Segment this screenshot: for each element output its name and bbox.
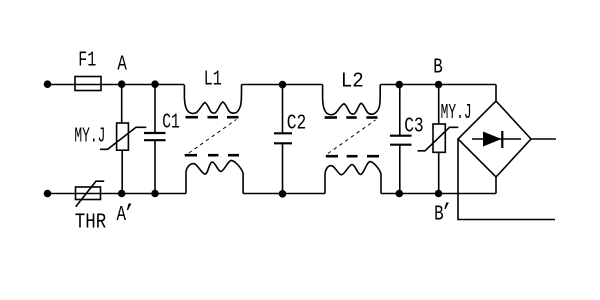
L1 core bottom dashes (185, 154, 239, 157)
svg-text:MY.J: MY.J (441, 101, 472, 125)
node: C2 top junction dot (279, 81, 287, 89)
wire: fuse to node A (101, 84, 122, 86)
svg-text:’: ’ (123, 202, 136, 226)
svg-text:C1: C1 (162, 110, 180, 134)
svg-text:L1: L1 (204, 67, 222, 91)
node B junction dot (435, 81, 443, 89)
wire: top rail L1 to C2 (242, 84, 283, 86)
node: C1 bottom junction dot (151, 190, 159, 198)
L2 core top dashes (325, 116, 378, 119)
svg-text:C3: C3 (404, 114, 424, 138)
wire: C3 node to node B (399, 84, 438, 86)
wire: C2 bottom to L2 bottom winding (283, 193, 326, 195)
svg-text:F1: F1 (78, 49, 96, 73)
node: C3 top junction dot (396, 81, 404, 89)
node: C3 bottom junction dot (396, 190, 404, 198)
inductor L1 bottom winding (186, 160, 243, 193)
wire: bottom-left input to THR (48, 193, 76, 195)
wire: node A to C1 node (122, 84, 155, 86)
wire: C1 bottom to L1 bottom winding (155, 193, 186, 195)
varistor MY.J (left) body (100, 123, 146, 150)
wire: bottom rail L1 to C2 bottom (243, 193, 282, 195)
wire: top-left input to fuse (48, 84, 76, 86)
wire: node B to bridge top (439, 84, 497, 86)
wire: bridge bottom corner riser (495, 177, 497, 194)
varistor MY.J (right) body (418, 124, 459, 152)
L1 core top dashes (186, 116, 239, 119)
varistor MY.J (right) vertical leads (438, 85, 440, 194)
wire: node A' to C1 bottom node (122, 193, 155, 195)
svg-text:’: ’ (440, 201, 453, 225)
L2 coupling dashed diagonal (328, 120, 376, 154)
bridge rectifier diamond (458, 101, 531, 177)
L2 core bottom dashes (326, 155, 379, 158)
inductor L2 top winding (323, 85, 381, 115)
node: C1 top junction dot (151, 80, 159, 88)
fuse F1 body (75, 77, 101, 91)
wire: bridge top corner riser (495, 85, 497, 102)
node A' junction dot (118, 190, 126, 198)
wire: C3 bottom to node B' (399, 193, 438, 195)
wire: bridge left corner down lead (458, 139, 555, 220)
node A junction dot (118, 80, 126, 88)
bridge diode triangle (483, 132, 502, 147)
capacitor C1 (144, 85, 166, 194)
svg-text:C2: C2 (287, 111, 307, 135)
svg-text:L2: L2 (341, 69, 364, 93)
node B' junction dot (435, 190, 443, 198)
node: bottom-left input terminal dot (44, 190, 52, 198)
svg-text:THR: THR (75, 211, 107, 235)
wire: top rail L2 to C3 node (381, 84, 400, 86)
L1 coupling dashed diagonal (189, 120, 237, 154)
wire: bottom rail L2 to C3 bottom (381, 193, 399, 195)
capacitor C2 (274, 85, 292, 194)
wire: C1 node to L1 (155, 84, 184, 86)
svg-text:A: A (117, 52, 127, 76)
wire: C2 to L2 top (283, 84, 323, 86)
thermistor THR body (76, 181, 105, 207)
bridge diode line (472, 138, 521, 140)
svg-text:B: B (433, 56, 443, 80)
wire: bridge right output (531, 138, 556, 140)
inductor L2 bottom winding (325, 162, 381, 194)
node: top-left input terminal dot (44, 80, 52, 88)
inductor L1 top winding (184, 85, 241, 114)
varistor MY.J (left) vertical leads (121, 85, 124, 194)
bridge diode cathode bar (501, 131, 503, 148)
wire: THR to node A' (101, 193, 122, 195)
wire: node B' to bridge bottom (439, 193, 497, 195)
node: C2 bottom junction dot (279, 190, 287, 198)
capacitor C3 (390, 85, 412, 194)
svg-text:MY.J: MY.J (74, 125, 105, 149)
